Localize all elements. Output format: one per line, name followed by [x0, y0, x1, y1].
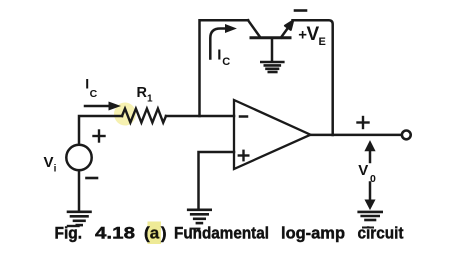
arrow V0 upper (pointing up) [365, 141, 375, 162]
svg-text:I: I [85, 75, 89, 91]
output wire [311, 134, 401, 137]
svg-text:I: I [217, 46, 221, 63]
arrow V0 lower (pointing down) [365, 183, 374, 210]
highlight on resistor R1 [114, 103, 136, 126]
svg-text:C: C [90, 88, 98, 100]
transistor Q1 emitter lead with arrow [281, 21, 293, 38]
wire resistor to inverting input [166, 115, 234, 118]
wire emitter to output node [293, 20, 333, 135]
svg-text:R: R [137, 85, 148, 101]
wire non-inverting input to ground [199, 152, 235, 209]
svg-text:4.18: 4.18 [95, 223, 135, 242]
macron artifact over Fundamental [191, 228, 200, 230]
ground (below Vi) [68, 212, 91, 225]
svg-text:log-amp: log-amp [281, 223, 345, 242]
label V0 [358, 162, 376, 185]
op-amp U1 [234, 100, 311, 169]
highlight on (a) in caption [148, 222, 162, 245]
wire Vi top to resistor [79, 116, 122, 145]
op-amp inverting input marker [240, 115, 247, 118]
svg-text:1: 1 [147, 94, 153, 105]
label + polarity of Vi [94, 131, 105, 142]
transistor Q1 collector lead [248, 20, 260, 37]
label - polarity of Vi [87, 177, 98, 180]
wire feedback: node A up and over to collector [200, 20, 249, 116]
svg-text:circuit: circuit [358, 223, 404, 242]
label Vi [44, 154, 57, 175]
svg-text:a: a [150, 223, 160, 242]
svg-text:E: E [319, 36, 326, 48]
transistor Q1 base lead to ground [271, 39, 274, 61]
svg-text:C: C [222, 56, 230, 68]
voltage source Vi [66, 145, 91, 170]
caption text [55, 223, 404, 242]
ground (non-inverting input) [188, 210, 211, 223]
resistor R1 [122, 109, 166, 123]
svg-text:V: V [358, 162, 368, 179]
label - polarity of VE [295, 9, 306, 12]
label R1 [137, 85, 154, 105]
svg-text:): ) [161, 223, 167, 242]
current arrow Ic feedback (curved) [210, 25, 235, 59]
svg-text:i: i [54, 164, 57, 175]
transistor Q1 base bar [251, 36, 290, 39]
svg-text:Fundamental: Fundamental [174, 223, 269, 242]
label Ic input [85, 75, 97, 100]
macron artifact over circuit [363, 227, 373, 229]
current arrow Ic input [85, 102, 120, 110]
output terminal [402, 131, 411, 140]
macron artifact over Fig [68, 225, 79, 227]
label +VE [298, 24, 326, 48]
ground (output) [359, 212, 382, 220]
label Ic feedback [217, 46, 230, 68]
wire Vi bottom to ground [78, 170, 81, 211]
op-amp non-inverting input marker [239, 151, 249, 160]
ground (transistor base) [261, 62, 283, 72]
svg-text:V: V [44, 154, 54, 171]
label + polarity of output [358, 117, 369, 128]
